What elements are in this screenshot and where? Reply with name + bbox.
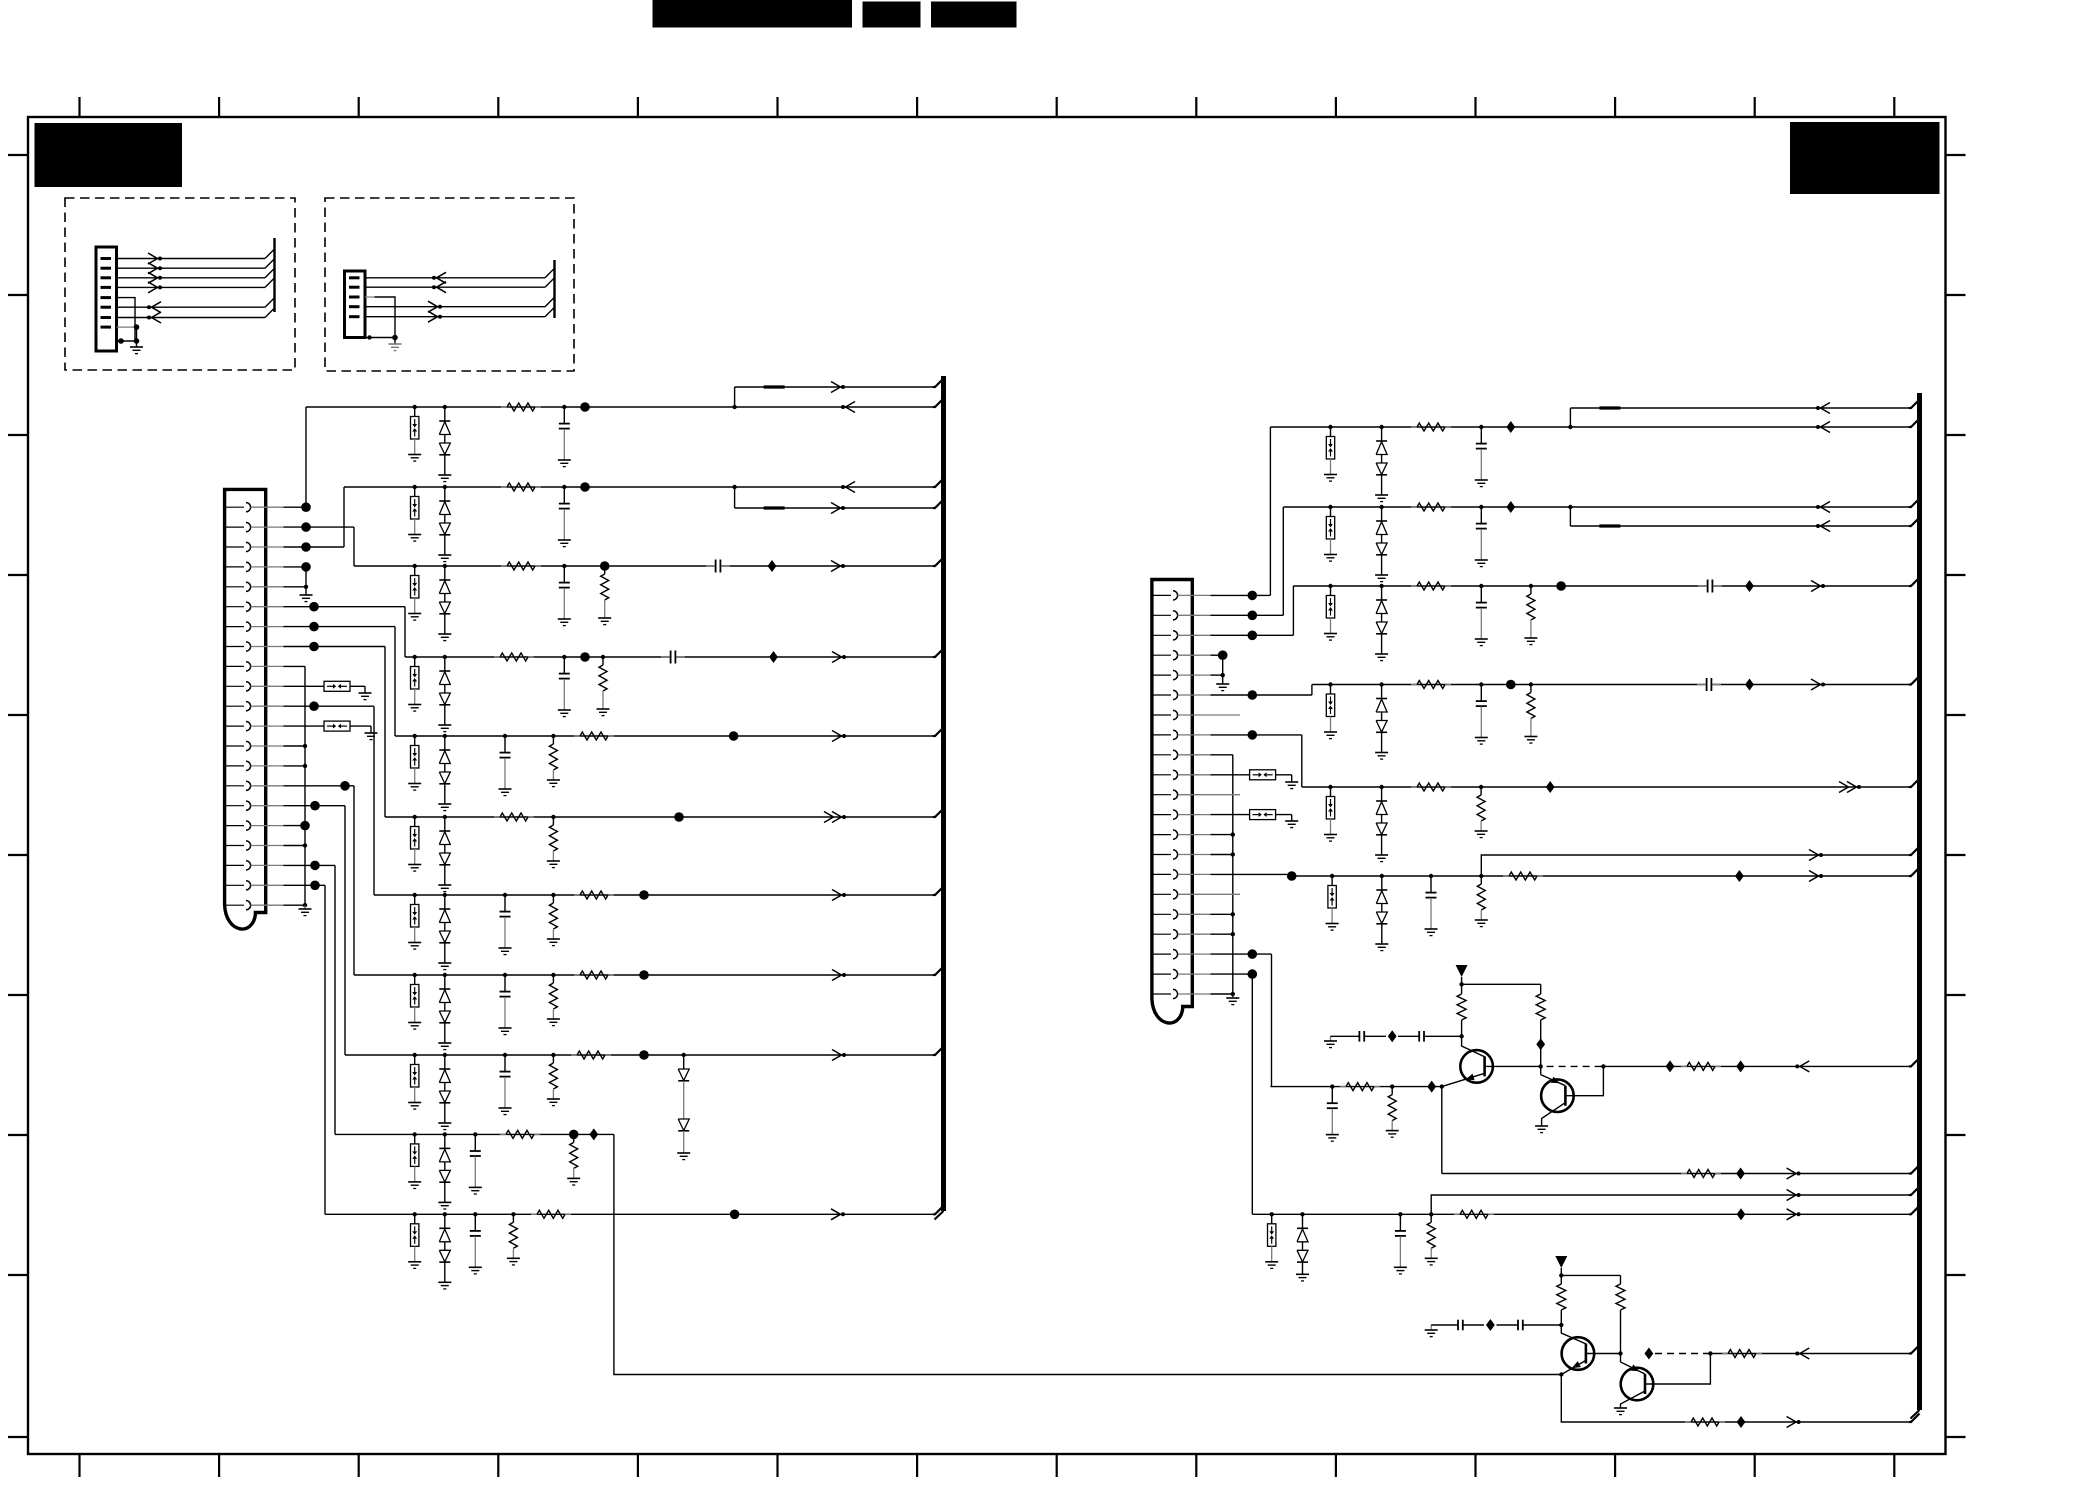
dashed option box 2 [325,198,574,371]
arrow row11 to bus [831,1209,841,1215]
coupling capacitor C16 [1707,578,1714,594]
wire pin8 to row6 [284,646,386,648]
load resistor R10 [551,815,555,819]
collector resistor R40 [1620,1275,1622,1284]
wire J2 pin3 to rowR3 [1211,634,1294,636]
net marker rowR5 [1546,781,1555,793]
diode pair D6 [443,815,447,819]
nc stub J2 pin16 [1211,893,1241,895]
diode pair D2 [443,485,447,489]
arrow row2 to bus [846,482,856,488]
arrow row1422 to bus [1787,1417,1797,1423]
bias resistor R31 [1461,984,1463,994]
junction emitter rail [1440,1084,1444,1088]
arrow Q1 out to bus [1800,1061,1810,1067]
resistor R42 [1722,1353,1728,1355]
junction row5 [729,731,739,741]
load resistor R24 [1529,584,1533,588]
capacitor C13 [1479,425,1483,429]
net marker rowR4 [1745,679,1754,691]
net marker rowR3 [1745,580,1754,592]
net marker row1173 [1736,1168,1745,1180]
branch stub rowR6 to bus [1481,855,1909,876]
ESD network Z15 [1328,682,1332,686]
leads Q4 and ground [1620,1354,1622,1363]
ESD network Z5 [413,734,417,738]
net marker Q1 out a [1666,1060,1675,1072]
wire rowR1 [1270,426,1909,428]
capacitor C9 [503,973,507,977]
connector J102 [345,271,366,338]
ESD network Z2 [413,485,417,489]
transistor Q2 [1541,1079,1574,1112]
arrow row4 to bus [832,652,842,658]
resistor R23 [1411,585,1417,587]
load resistor R6 [601,655,605,659]
load resistor R19 [511,1212,515,1216]
ESD network Z8 [413,973,417,977]
load resistor R28 [1479,785,1483,789]
resistor R1 [501,406,507,408]
diode pair D12 [443,1132,447,1136]
capacitor C11 [473,1132,477,1136]
wire row9 [345,1054,933,1056]
wire pin19 to row10 [284,864,336,866]
ESD network Z6 [413,815,417,819]
resistor R16 [571,1054,577,1056]
wire J2 pin19 to emitter rail [1211,953,1272,955]
load resistor R18 [569,1130,579,1140]
capacitor C23 [1398,1212,1402,1216]
wire row11 [325,1213,933,1215]
capacitor C5 [562,655,566,659]
arrow Q3 out to bus [1800,1348,1810,1354]
resistor R27 [1411,786,1417,788]
harness bus of box1 [117,258,266,260]
arrow rowR2 to bus [1821,502,1831,508]
diode pair D15 [1379,505,1383,509]
wire pin2 to row3 [284,526,355,528]
resistor R14 [574,974,580,976]
nc stub J2 pin11 [1211,794,1241,796]
wire row5 [395,735,933,737]
net marker rowR7 [1737,1208,1746,1220]
wire rowR4 [1312,684,1909,686]
junction rowR3 [1556,581,1566,591]
ESD network Z4 [413,655,417,659]
connector J2 pins [1153,594,1171,596]
nc stub J2 pin7 [1211,714,1241,716]
wire row8 [354,974,933,976]
wire J2 pin8 to rowR5 [1211,734,1302,736]
coupling capacitor C4 [715,558,722,574]
junction row4 [580,652,590,662]
net marker rowR2 [1506,501,1515,513]
diode pair D14 [1379,425,1383,429]
capacitor C17 [1479,682,1483,686]
bias resistor R39 [1560,1275,1562,1284]
arrow rowR1 to bus [1821,422,1831,428]
capacitor C10 [503,1053,507,1057]
load resistor R29 [1479,874,1483,878]
arrow row9 to bus [832,1050,842,1056]
junction rowR4 [1506,680,1516,690]
diode pair D1 [443,405,447,409]
wire J2 pin1 to rowR1 [1211,594,1271,596]
right signal bus [1917,393,1922,1410]
redacted label block upper-right [1790,122,1940,194]
junction row2 [580,482,590,492]
capacitor C3 [562,564,566,568]
ESD network Z12 [1328,425,1332,429]
ground bus pins 9 13 14 17 18 21 J1 [284,665,306,667]
diode pair D3 [443,564,447,568]
wire pin1 to row1 net RED+ [284,506,307,508]
net marker rowR6 [1735,870,1744,882]
ESD network Z3 [413,564,417,568]
emitter rail Q1 [1270,1086,1441,1088]
ESD network Z7 [413,893,417,897]
junction row1 [580,402,590,412]
diode pair D7 [443,893,447,897]
wire pin15 to row8 [284,785,346,787]
diode pair D9 [443,1053,447,1057]
diode pair D20 [1300,1212,1304,1216]
leads Q2 and ground [1540,1066,1542,1074]
wire row1 [306,406,933,408]
wire J2 pin2 to rowR2 [1211,614,1284,616]
resistor R5 [494,656,500,658]
diode pair D16 [1379,584,1383,588]
series diodes D10 D11 [682,1053,686,1057]
capacitor C1 [562,405,566,409]
diode pair D17 [1379,682,1383,686]
ground net of box2 [365,296,375,298]
wire pin7 to row5 [284,626,396,628]
supply node Q1 stage [1459,982,1463,986]
arrow row7 to bus [832,890,842,896]
supply arrow VCC1 [1456,965,1468,977]
wire rowR6 [1292,875,1909,877]
arrow row3 to bus [831,561,841,567]
junction row6 [674,812,684,822]
net marker Q1 out b [1736,1060,1745,1072]
junction row8 [639,970,649,980]
coupling capacitor C18 [1706,677,1713,693]
leads Q3 [1561,1325,1586,1344]
resistor R30 [1503,875,1509,877]
wire row2 [344,486,933,488]
resistor R9 [494,816,500,818]
ESD network Z16 [1328,785,1332,789]
ESD network Z14 [1328,584,1332,588]
capacitor C19 [1429,874,1433,878]
ground bus pins 9 13 14 17 18 21 J2 [1211,754,1233,756]
arrow row5 to bus [832,731,842,737]
arrow rowR3 to bus [1811,581,1821,587]
base coupling capacitors C24 C25 [1430,1325,1432,1330]
ESD network Z18 [1270,1212,1274,1216]
connector J1 body [225,489,266,929]
wire emitter to bus row [1441,1087,1443,1174]
ground pins 4-5 J1 [284,566,307,568]
collector resistor R32 [1540,984,1542,994]
connector J2 body [1152,580,1192,1024]
long rail row10 to transistor stage [614,1134,1561,1374]
wire J2 pin20 to rowR7 [1211,973,1253,975]
load resistor R12 [551,973,555,977]
arrow row6 to bus double [824,812,834,818]
ESD network Z9 [413,1053,417,1057]
shield pair stub rowR2 [1568,505,1572,509]
ground net of box1 [117,298,136,341]
redacted label block upper-left [35,123,183,187]
resistor R25 [1411,684,1417,686]
junction rowR6 input [1287,871,1297,881]
wire row10 [335,1133,614,1135]
resistor R41 [1685,1421,1691,1423]
redacted title block top-right [931,2,1017,28]
arrow row1173 to bus [1787,1168,1797,1174]
filter FB2 pin12 [284,725,325,727]
wire pin11 to row7 [284,705,375,707]
junction row9 [639,1050,649,1060]
resistor R36 [1681,1065,1687,1067]
coupling capacitor C6 [670,649,677,665]
junction row7 [639,890,649,900]
resistor R22 [1411,506,1417,508]
diode pair D5 [443,734,447,738]
supply node Q3 stage [1559,1273,1563,1277]
net marker row10 [589,1128,598,1140]
wire rowR3 [1293,585,1909,587]
resistor R20 [531,1213,537,1215]
capacitor C22 [1330,1084,1334,1088]
wire pin20 to row11 [284,884,326,886]
net marker emitter rail [1427,1081,1436,1093]
filter FB4 J2 pin12 [1211,814,1250,816]
ESD network Z10 [413,1132,417,1136]
load resistor R4 [600,561,610,571]
connector J1 pins [226,506,244,508]
diode pair D8 [443,973,447,977]
dashed option box 1 [65,198,295,370]
net marker collector Q1 [1536,1038,1545,1050]
wire rowR2 [1283,506,1909,508]
capacitor C12 [473,1212,477,1216]
ground pins 4-5 J2 [1211,654,1223,656]
harness bus of box2 [365,277,545,279]
base coupling capacitors C20 C21 [1330,1036,1332,1041]
resistor R38 [1454,1213,1460,1215]
return wires of box1 [117,306,266,308]
net marker row1422 [1737,1416,1746,1428]
redacted title block top-left [653,0,853,28]
frame ruler tick marks [78,97,80,117]
shield pair stub rowR1 [1568,425,1572,429]
redacted title block top-middle [863,2,921,28]
emitter wire Q3 to bus row [1561,1375,1909,1423]
ESD network Z13 [1328,505,1332,509]
arrow rowR6 to bus [1809,871,1819,877]
wire pin3 to row2 [284,546,345,548]
resistor R8 [574,735,580,737]
arrow rowR7 to bus [1787,1209,1797,1215]
load resistor R7 [551,734,555,738]
branch rowR7 upper to bus [1431,1195,1909,1214]
load resistor R37 [1429,1212,1433,1216]
resistor R13 [574,894,580,896]
net marker row3 [768,560,777,572]
wire row6 [385,816,933,818]
shield pair stub row2 [732,485,736,489]
filter FB1 pin10 [284,685,325,687]
load resistor R34 [1390,1084,1394,1088]
supply arrow VCC2 [1555,1256,1567,1268]
ESD network Z17 [1330,874,1334,878]
transistor Q1 [1460,1050,1493,1083]
diode pair D19 [1380,874,1384,878]
wire J2 pin15 to rowR6 [1211,873,1292,875]
capacitor C15 [1479,584,1483,588]
resistor R17 [500,1133,506,1135]
capacitor C14 [1479,505,1483,509]
ESD network Z11 [413,1212,417,1216]
wire row4 [405,656,933,658]
net marker row4 [769,651,778,663]
ESD network Z1 [413,405,417,409]
wire row7 [374,894,933,896]
arrow row8 to bus [832,970,842,976]
dashed link Q1 collector [1547,1065,1604,1067]
resistor R33 [1340,1086,1346,1088]
resistor R2 [501,486,507,488]
resistor R35 [1681,1173,1687,1175]
transistor Q3 [1562,1337,1595,1370]
wire pin16 to row9 [284,805,346,807]
connector J101 [96,247,117,351]
dashed link Q3 collector [1645,1348,1654,1360]
diode pair D18 [1379,785,1383,789]
leads Q1 [1462,1036,1485,1057]
arrow rowR4 to bus [1811,679,1821,685]
capacitor C2 [562,485,566,489]
resistor R21 [1411,426,1417,428]
wire rowR7 [1252,1213,1909,1215]
junction row11 [730,1210,740,1220]
wire rowR5 [1302,786,1909,788]
arrow row1 to bus [846,402,856,408]
diode pair D13 [443,1212,447,1216]
diode pair D4 [443,655,447,659]
wire J2 pin6 to rowR4 [1211,694,1312,696]
load resistor R26 [1529,682,1533,686]
wire pin6 to row4 [284,606,406,608]
arrow rowR5 to bus double [1839,782,1849,788]
load resistor R15 [551,1053,555,1057]
transistor Q4 [1621,1368,1654,1401]
load resistor R11 [551,893,555,897]
shield pair stub row1 [732,405,736,409]
net marker rowR1 [1506,421,1515,433]
filter FB3 J2 pin10 [1211,774,1250,776]
capacitor C8 [503,893,507,897]
left signal bus [941,376,946,1211]
wire row3 [354,565,933,567]
capacitor C7 [503,734,507,738]
resistor R3 [501,565,507,567]
